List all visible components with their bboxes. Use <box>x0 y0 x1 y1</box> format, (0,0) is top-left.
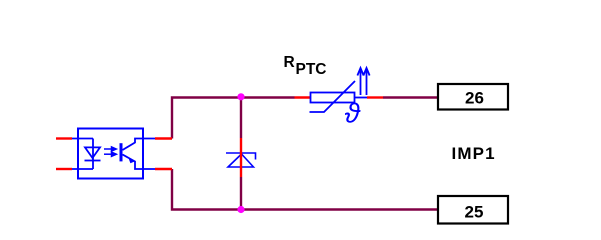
wire bottom rail maroon from left corner to terminal 25 <box>172 169 438 210</box>
svg-text:ϑ: ϑ <box>345 98 362 129</box>
optocoupler U1 emitter arrowhead <box>128 157 135 163</box>
optocoupler U1 phototransistor Q (base bar, collector, emitter w/ arrow) <box>121 139 155 170</box>
svg-text:PTC: PTC <box>296 61 327 78</box>
svg-text:25: 25 <box>465 203 484 222</box>
wire red pin stubs of thermistor RPTC <box>295 96 384 98</box>
wire top rail maroon from left corner to terminal 26 <box>172 98 438 139</box>
svg-text:R: R <box>284 54 295 71</box>
svg-text:26: 26 <box>465 88 484 107</box>
terminal 26 box <box>438 84 508 110</box>
wire red pin stubs of optocoupler <box>56 139 172 170</box>
wire zener branch maroon segments <box>240 98 242 210</box>
thermistor RPTC double up arrows <box>357 68 369 95</box>
optocoupler U1 light coupling arrows <box>104 147 116 156</box>
thermistor RPTC body <box>310 81 368 112</box>
optocoupler U1 body <box>78 129 143 179</box>
zener diode D1 (cathode bar with hook, triangle pointing up) <box>226 153 256 167</box>
optocoupler U1 LED (anode top, cathode bottom) <box>72 139 101 170</box>
junction node top (magenta dot) <box>237 93 244 100</box>
wire red segment through zener diode D1 <box>240 138 242 177</box>
junction node bottom (magenta dot) <box>237 206 244 213</box>
svg-text:IMP1: IMP1 <box>452 144 496 163</box>
terminal 25 box <box>438 196 508 224</box>
